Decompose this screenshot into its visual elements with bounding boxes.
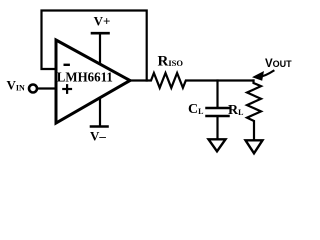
svg-text:V+: V+ (94, 14, 111, 29)
svg-text:LMH6611: LMH6611 (57, 70, 113, 85)
svg-text:V–: V– (90, 128, 106, 143)
svg-text:VOUT: VOUT (265, 58, 292, 70)
